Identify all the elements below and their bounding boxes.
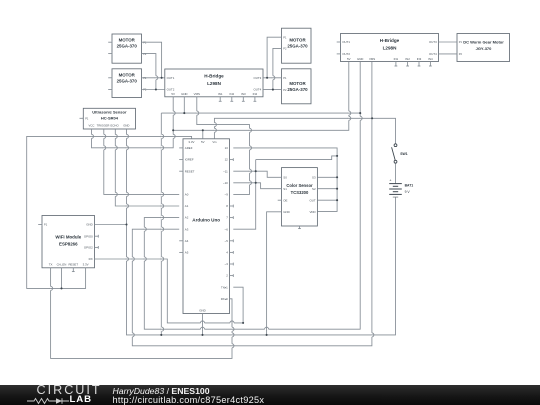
svg-text:P1: P1 bbox=[283, 76, 287, 80]
junction S3 on bus bbox=[336, 176, 338, 178]
color sensor U6 TCS3200 bbox=[282, 168, 318, 226]
svg-text:RX◂0: RX◂0 bbox=[221, 297, 228, 301]
svg-text:A4: A4 bbox=[185, 239, 189, 243]
svg-text:GND: GND bbox=[123, 124, 129, 128]
junction OUT3 branch bbox=[266, 77, 268, 79]
junction GND column x161 on GND bottom row bbox=[160, 334, 162, 336]
wire M2.P2 to U1.OUT2 bbox=[142, 89, 165, 91]
svg-text:Arduino Uno: Arduino Uno bbox=[192, 218, 220, 223]
logo schematic glyph: wire, resistor, diode bbox=[27, 397, 69, 405]
svg-text:GND: GND bbox=[199, 309, 205, 313]
svg-text:ESP8266: ESP8266 bbox=[59, 242, 78, 247]
svg-text:A1: A1 bbox=[185, 204, 189, 208]
U4 unconnected pin A4 bbox=[179, 239, 183, 242]
svg-text:A3: A3 bbox=[185, 227, 189, 231]
wire U3.TRIGGER to Arduino A0 bbox=[104, 129, 179, 194]
wire U1.OUT4 to M4.P2 bbox=[263, 89, 282, 91]
wire U1.GND pin to GND row bbox=[183, 97, 185, 113]
M1 unconnected left pin 1 bbox=[108, 41, 112, 44]
svg-text:A0: A0 bbox=[185, 193, 189, 197]
svg-text:~9: ~9 bbox=[225, 193, 229, 197]
DC worm gear motor M5 JGY-370 bbox=[457, 34, 510, 62]
svg-text:OUT3: OUT3 bbox=[429, 40, 437, 44]
U4 unconnected pin RESET bbox=[179, 170, 183, 173]
svg-text:Color Sensor: Color Sensor bbox=[286, 183, 313, 188]
svg-text:IN1: IN1 bbox=[218, 92, 223, 96]
svg-text:H-Bridge: H-Bridge bbox=[204, 74, 224, 79]
wire M1.P1 to U1.OUT1 net bbox=[142, 42, 162, 78]
svg-text:IN1: IN1 bbox=[394, 57, 399, 61]
wire Arduino GND pin down bbox=[202, 314, 204, 335]
U4 unconnected pin 7 bbox=[230, 216, 234, 219]
svg-text:CH_EN: CH_EN bbox=[57, 263, 67, 267]
svg-text:OUT: OUT bbox=[309, 198, 315, 202]
svg-text:RX: RX bbox=[89, 257, 93, 261]
U4 unconnected pin A5 bbox=[179, 251, 183, 254]
svg-text:MOTOR: MOTOR bbox=[119, 38, 136, 43]
junction M1.P1/OUT1 bbox=[161, 77, 163, 79]
svg-text:~10: ~10 bbox=[223, 181, 228, 185]
svg-text:RESET: RESET bbox=[185, 169, 195, 173]
svg-text:Vin: Vin bbox=[212, 140, 217, 144]
U4 unconnected pin 8 bbox=[230, 205, 234, 208]
wire Arduino pin 13 to color sensor bus bbox=[233, 148, 337, 212]
svg-text:GND: GND bbox=[86, 223, 92, 227]
svg-text:OUT4: OUT4 bbox=[253, 88, 261, 92]
svg-text:OUT2: OUT2 bbox=[167, 88, 175, 92]
svg-text:BAT1: BAT1 bbox=[405, 184, 414, 188]
svg-text:IN4: IN4 bbox=[428, 57, 433, 61]
svg-text:GND: GND bbox=[181, 92, 187, 96]
junction OUT on bus bbox=[336, 199, 338, 201]
svg-text:S2: S2 bbox=[312, 187, 316, 191]
svg-text:AREF: AREF bbox=[185, 146, 193, 150]
U1 unconnected pin IN2 bbox=[230, 97, 233, 102]
wire U1.VMS to Arduino pin 9 bbox=[197, 97, 250, 195]
svg-text:TCS3200: TCS3200 bbox=[291, 190, 309, 195]
WiFi module U5 ESP8266 bbox=[42, 216, 95, 268]
wire Vin rail to switch SW1 bbox=[214, 118, 395, 143]
U4 unconnected pin 4 bbox=[230, 251, 234, 254]
junction Vin rail at U2.VMS column bbox=[371, 117, 373, 119]
svg-text:5V: 5V bbox=[347, 57, 351, 61]
wire GND row H_a to U2.GND column bbox=[161, 112, 360, 114]
wire M2.P1 to U1.OUT1 bbox=[142, 77, 165, 79]
svg-text:RESET: RESET bbox=[68, 263, 78, 267]
wire crossing hops bbox=[49, 76, 374, 348]
junction ESP GND row on GND column bbox=[125, 223, 127, 225]
wire U6.S3 to bus bbox=[317, 176, 337, 178]
wire M3.P2 to U1.OUT4 net bbox=[273, 48, 282, 89]
wire U1.OUT3 to M4.P1 bbox=[263, 77, 282, 79]
svg-text:~5: ~5 bbox=[225, 239, 229, 243]
svg-text:5V: 5V bbox=[171, 92, 175, 96]
svg-text:GND: GND bbox=[283, 210, 289, 214]
svg-text:OUT4: OUT4 bbox=[429, 52, 437, 56]
svg-text:L298N: L298N bbox=[207, 81, 221, 86]
ultrasonic sensor U3 HC-SR04 bbox=[83, 108, 135, 129]
switch SW1 bbox=[392, 144, 397, 163]
U2 unconnected pin OUT2 bbox=[337, 53, 341, 56]
wire Arduino pin 11 to U6.S0 bbox=[233, 171, 281, 177]
M2 unconnected left pin 2 bbox=[108, 88, 112, 91]
svg-text:S0: S0 bbox=[283, 175, 287, 179]
wire U6.OUT to bus bbox=[317, 199, 337, 201]
wire BAT1 negative to GND row and ultrasonic GND bbox=[127, 129, 396, 335]
svg-text:MOTOR: MOTOR bbox=[289, 38, 306, 43]
wire 5V rail H_c to U2.5V bbox=[173, 62, 349, 130]
wire U5.RX to Arduino pin 1 via bottom row bbox=[95, 259, 244, 323]
wire 5V net: U1.5V down to U3.VCC row bbox=[92, 97, 174, 148]
U4 unconnected pin 5 bbox=[230, 239, 234, 242]
wire U5.CH_EN down to 3.3V rail bbox=[61, 268, 63, 289]
motor M3 (right top) 25GA-370 bbox=[282, 28, 312, 63]
U2 unconnected pin IN3 bbox=[418, 62, 421, 67]
U5 unconnected pin RESET bbox=[72, 268, 75, 272]
svg-text:OUT1: OUT1 bbox=[167, 76, 175, 80]
svg-text:~11: ~11 bbox=[223, 169, 228, 173]
svg-text:VCC: VCC bbox=[89, 124, 95, 128]
svg-text:P2: P2 bbox=[283, 47, 287, 51]
svg-text:VDD: VDD bbox=[309, 210, 315, 214]
U5 unconnected pin P1 bbox=[38, 223, 42, 226]
U4 unconnected pin IOREF bbox=[179, 158, 183, 161]
svg-text:H-Bridge: H-Bridge bbox=[380, 38, 400, 43]
junction M1.P2/OUT2 bbox=[155, 88, 157, 90]
svg-text:GPIO0: GPIO0 bbox=[84, 234, 93, 238]
svg-text:13: 13 bbox=[225, 146, 229, 150]
CircuitLab logo bbox=[37, 383, 102, 397]
svg-text:TRIGGER: TRIGGER bbox=[97, 124, 110, 128]
svg-text:GPIO2: GPIO2 bbox=[84, 246, 93, 250]
wire Arduino 5V pin to 5V rail bbox=[202, 130, 204, 139]
junction M3.P2/OUT4 bbox=[272, 89, 274, 91]
wire Arduino A3 to U2.VMS bbox=[132, 62, 372, 346]
U6 unconnected pin OE bbox=[278, 199, 282, 202]
junction pin1 on RX row bbox=[242, 322, 244, 324]
svg-text:IOREF: IOREF bbox=[185, 158, 194, 162]
wire vertical net to Arduino pin 6 bbox=[233, 160, 255, 230]
svg-text:IN2: IN2 bbox=[405, 57, 410, 61]
U2 unconnected pin IN4 bbox=[429, 62, 432, 67]
svg-text:OUT2: OUT2 bbox=[342, 52, 350, 56]
junction 5V rail at Arduino 5V bbox=[202, 129, 204, 131]
svg-text:Ultrasonic Sensor: Ultrasonic Sensor bbox=[92, 109, 127, 114]
Arduino Uno U4 bbox=[183, 139, 230, 314]
junction U1.GND on GND row bbox=[183, 112, 185, 114]
U2 unconnected pin IN2 bbox=[406, 62, 409, 67]
svg-text:12: 12 bbox=[225, 158, 229, 162]
svg-text:DC Worm Gear Motor: DC Worm Gear Motor bbox=[463, 40, 504, 45]
svg-text:P1: P1 bbox=[283, 35, 287, 39]
wire U6.GND down to GND row bbox=[267, 212, 282, 335]
svg-text:3.3V: 3.3V bbox=[83, 263, 89, 267]
junction pin10 row on vertical bus bbox=[255, 182, 257, 184]
svg-text:~6: ~6 bbox=[225, 227, 229, 231]
svg-text:TX: TX bbox=[49, 263, 53, 267]
svg-text:S3: S3 bbox=[312, 175, 316, 179]
junction GND row at U2.GND column bbox=[359, 112, 361, 114]
U4 unconnected pin 2 bbox=[230, 274, 234, 277]
svg-text:VMS: VMS bbox=[194, 92, 200, 96]
U3 unconnected pin P1 bbox=[80, 117, 84, 120]
wire Arduino pin 0 RX to U5.TX bbox=[51, 268, 232, 359]
svg-text:P2: P2 bbox=[283, 88, 287, 92]
H-bridge U2 L298N (top right) bbox=[341, 34, 439, 62]
junction bus jog bbox=[336, 155, 338, 157]
wire Arduino A2 to U2.GND bbox=[144, 62, 360, 329]
svg-text:SW1: SW1 bbox=[400, 152, 407, 156]
U5 unconnected pin GPIO2 bbox=[95, 246, 99, 249]
svg-text:HC-SR04: HC-SR04 bbox=[101, 115, 119, 120]
svg-text:5V: 5V bbox=[201, 140, 205, 144]
svg-text:3.3V: 3.3V bbox=[188, 140, 194, 144]
H-bridge U1 L298N (left) bbox=[165, 69, 263, 97]
svg-text:IN2: IN2 bbox=[230, 92, 235, 96]
wire OUT3 branch up to M3.P1 bbox=[267, 37, 281, 78]
battery BAT1 9V bbox=[389, 184, 402, 198]
svg-text:9 V: 9 V bbox=[405, 190, 411, 194]
motor M4 (right bottom) 25GA-370 bbox=[282, 69, 312, 104]
U4 unconnected pin 12 bbox=[230, 158, 234, 161]
M2 unconnected left pin 1 bbox=[108, 76, 112, 79]
wire U3.ECHO to Arduino A1 bbox=[115, 129, 179, 206]
wire U2.OUT3 to M5.P1 bbox=[439, 41, 458, 43]
svg-text:MOTOR: MOTOR bbox=[119, 72, 136, 77]
svg-text:VMS: VMS bbox=[369, 57, 375, 61]
svg-text:OUT3: OUT3 bbox=[253, 76, 261, 80]
svg-text:25GA-370: 25GA-370 bbox=[117, 78, 138, 83]
junction pin11 row on vertical bus bbox=[255, 170, 257, 172]
U5 unconnected pin GPIO0 bbox=[95, 235, 99, 238]
svg-text:L298N: L298N bbox=[383, 45, 397, 50]
U1 unconnected pin IN3 bbox=[242, 97, 245, 102]
svg-text:IN3: IN3 bbox=[417, 57, 422, 61]
U2 unconnected pin IN1 bbox=[395, 62, 398, 67]
motor M2 (left bottom) 25GA-370 bbox=[112, 69, 142, 98]
wire Arduino pin 1 TX bbox=[233, 287, 243, 323]
svg-text:A5: A5 bbox=[185, 251, 189, 255]
svg-text:GND: GND bbox=[357, 57, 363, 61]
svg-text:OE: OE bbox=[283, 198, 287, 202]
svg-text:P1: P1 bbox=[44, 223, 48, 227]
junction CS GND on GND bottom row bbox=[266, 334, 268, 336]
wire pin12 net to bus with jog bbox=[256, 156, 337, 160]
motor M1 (left top) 25GA-370 bbox=[112, 34, 142, 63]
M1 unconnected left pin 2 bbox=[108, 52, 112, 55]
svg-text:TX▸1: TX▸1 bbox=[221, 285, 228, 289]
svg-text:OUT1: OUT1 bbox=[342, 40, 350, 44]
svg-text:25GA-370: 25GA-370 bbox=[117, 44, 138, 49]
U4 unconnected pin AREF bbox=[179, 147, 183, 150]
wire U2.OUT4 to M5.P2 bbox=[439, 53, 458, 55]
U1 unconnected pin IN1 bbox=[219, 97, 222, 102]
wire U6.S2 to bus bbox=[317, 188, 337, 190]
junction Arduino GND on GND bottom row bbox=[201, 334, 203, 336]
wire Arduino pin 10 to U6.S1 bbox=[233, 183, 281, 189]
wire GND column left x161 bbox=[160, 113, 162, 335]
svg-text:P2: P2 bbox=[459, 52, 463, 56]
U2 unconnected pin OUT1 bbox=[337, 41, 341, 44]
svg-text:ECHO: ECHO bbox=[111, 124, 120, 128]
svg-text:P1: P1 bbox=[85, 117, 89, 121]
svg-text:25GA-370: 25GA-370 bbox=[287, 87, 308, 92]
wire 3.3V loop: Arduino 3.3V to ESP bottom rail bbox=[27, 136, 192, 288]
wire U5.GND to GND column bbox=[95, 224, 127, 226]
svg-text:IN3: IN3 bbox=[241, 92, 246, 96]
junction S2 on bus bbox=[336, 188, 338, 190]
junction CH_EN on 3.3V rail bbox=[60, 287, 62, 289]
svg-text:WiFi Module: WiFi Module bbox=[55, 235, 81, 240]
svg-text:P1: P1 bbox=[459, 40, 463, 44]
wire SW1 to BAT1 positive bbox=[395, 163, 397, 183]
U4 unconnected pin 3 bbox=[230, 263, 234, 266]
svg-text:MOTOR: MOTOR bbox=[289, 81, 306, 86]
svg-text:+: + bbox=[389, 179, 391, 183]
svg-text:S1: S1 bbox=[283, 187, 287, 191]
U6 unconnected bottom pin bbox=[298, 226, 301, 229]
U1 unconnected pin IN4 bbox=[254, 97, 257, 102]
svg-text:25GA-370: 25GA-370 bbox=[287, 44, 308, 49]
wire M1.P2 to U1.OUT2 net bbox=[142, 54, 156, 90]
svg-text:~3: ~3 bbox=[225, 262, 229, 266]
svg-text:JGY-370: JGY-370 bbox=[476, 46, 493, 51]
svg-text:A2: A2 bbox=[185, 216, 189, 220]
svg-text:IN4: IN4 bbox=[253, 92, 258, 96]
junction 5V rail at U1.5V column bbox=[172, 129, 174, 131]
